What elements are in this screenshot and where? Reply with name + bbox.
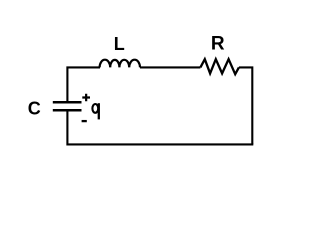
resistor R xyxy=(200,59,239,74)
capacitor C bottom plate xyxy=(53,109,82,112)
capacitor C top plate xyxy=(53,101,82,104)
svg-text:R: R xyxy=(211,33,225,54)
svg-text:L: L xyxy=(114,34,125,54)
wire right side xyxy=(239,67,252,144)
inductor L xyxy=(100,60,140,68)
minus sign xyxy=(82,120,87,122)
wire between L and R xyxy=(140,66,200,68)
plus sign xyxy=(82,94,90,102)
wire top-left segment xyxy=(67,67,100,101)
label q xyxy=(92,103,98,119)
svg-text:C: C xyxy=(28,98,41,118)
wire bottom xyxy=(67,110,253,144)
